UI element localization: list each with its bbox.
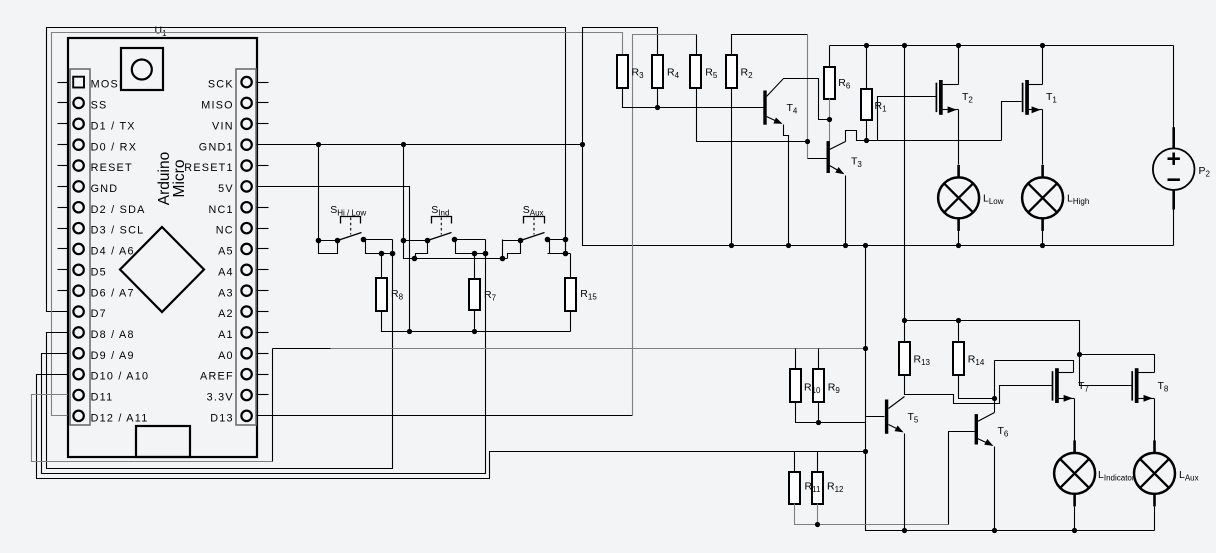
Arduino left pins — [73, 77, 149, 425]
wire T7 drain from T6 collector — [995, 361, 1074, 373]
wire R2 bottom to emitter rail — [731, 89, 733, 246]
wire 5V to resistor rail — [257, 187, 410, 332]
junction T8 drain supply — [1077, 352, 1082, 357]
resistor R4 — [652, 55, 663, 88]
junction T3 base bus — [805, 139, 810, 144]
svg-text:D0 / RX: D0 / RX — [91, 141, 138, 153]
svg-text:D11: D11 — [91, 392, 114, 404]
wire R8 top — [381, 254, 383, 278]
wire R6 top — [829, 46, 831, 67]
svg-text:VIN: VIN — [212, 120, 234, 132]
svg-text:RESET1: RESET1 — [184, 162, 234, 174]
wire T8 drain — [1080, 355, 1155, 373]
label R2 — [741, 67, 754, 81]
resistor R13 — [899, 342, 910, 375]
resistor R3 — [617, 55, 628, 88]
wire D11 gray bus to R9 R10 tops — [32, 349, 866, 462]
resistor R11 — [789, 472, 800, 504]
svg-text:D5: D5 — [91, 266, 107, 278]
junction emitter rail — [729, 243, 1045, 248]
wire T3 base — [808, 158, 827, 160]
wire S_Aux feed vertical — [502, 240, 504, 259]
transistor T3 — [827, 141, 830, 173]
Arduino right pin header — [236, 69, 256, 425]
lamp L_Low — [938, 165, 1004, 231]
lamp L_Aux — [1134, 440, 1199, 506]
wire D10 bus — [37, 375, 866, 479]
wire D12 to R3 (gray) — [52, 33, 623, 416]
resistor R1 — [861, 89, 872, 120]
svg-text:D4 / A6: D4 / A6 — [91, 246, 135, 258]
wire L_Aux bottom — [1154, 507, 1156, 531]
svg-text:A1: A1 — [218, 329, 234, 341]
Arduino Micro text — [156, 152, 188, 205]
label T4 — [787, 102, 798, 116]
wire R14 bottom — [959, 375, 995, 399]
resistor R15 — [565, 278, 576, 311]
resistor R9 — [813, 369, 824, 402]
wire R4 bottom riser — [657, 89, 659, 108]
wire supply drop to R13 — [904, 46, 906, 343]
switch S_Hi/Low — [316, 145, 393, 254]
Arduino pin stubs — [58, 83, 269, 395]
wire R13 bottom and T5 collector to T7 gate — [905, 375, 1053, 404]
wire R3 R4 bottoms to T4 base — [623, 89, 764, 108]
svg-text:D9 / A9: D9 / A9 — [91, 350, 135, 362]
resistor R7 — [469, 279, 480, 310]
wire T6 base — [949, 432, 975, 525]
transistor T7 — [1053, 368, 1090, 440]
junction switch1 outputs — [379, 251, 396, 257]
wire R5 bottom to T3 base bus — [697, 89, 808, 142]
wire GND bus to switch pivots — [404, 241, 508, 259]
junction GND1 rail — [316, 142, 585, 147]
label R4 — [667, 67, 680, 81]
resistor R8 — [376, 278, 387, 311]
wire T4 collector — [767, 79, 830, 120]
svg-text:5V: 5V — [218, 183, 234, 195]
wire R13 R14 supply rail — [905, 321, 1132, 386]
svg-text:A2: A2 — [218, 308, 234, 320]
transistor T5 — [885, 400, 888, 434]
resistor R2 — [726, 55, 737, 88]
svg-text:A0: A0 — [218, 350, 234, 362]
svg-text:D7: D7 — [91, 308, 107, 320]
resistor R12 — [812, 472, 823, 504]
wire R7 bottom — [474, 311, 476, 332]
wire R10 R9 bottoms — [796, 403, 866, 423]
Arduino diamond logo — [120, 227, 204, 312]
wire R11 top — [794, 452, 796, 473]
Arduino ICSP connector — [121, 48, 163, 90]
wire P2 top — [1173, 46, 1175, 149]
wire R2 top to T3 base — [732, 35, 808, 56]
wire T6 emitter — [978, 439, 995, 531]
svg-text:SS: SS — [91, 100, 108, 112]
wire T3 base riser (gray) — [807, 35, 809, 159]
lamp L_Indicator — [1054, 440, 1135, 506]
wire T5 collector — [889, 397, 905, 409]
transistor T4 — [763, 91, 766, 125]
svg-text:RESET: RESET — [91, 162, 133, 174]
wire R12 top — [817, 452, 819, 473]
wire R1 top — [866, 46, 868, 90]
svg-text:D10 / A10: D10 / A10 — [91, 371, 150, 383]
wire P2 bottom — [1172, 190, 1175, 246]
label R7 — [484, 289, 497, 303]
wire L_Low bottom — [958, 231, 960, 246]
wire R15 top — [570, 254, 572, 279]
junction R4 base rail — [655, 105, 660, 110]
wire R7 top — [474, 254, 476, 280]
node GND1-R4 riser — [583, 28, 658, 145]
label T5 — [908, 411, 919, 425]
wire T3 collector — [830, 142, 846, 150]
junction resistor rail — [407, 329, 477, 334]
wire T3 collector bus with hop — [846, 131, 1002, 142]
wire main vertical bus — [866, 246, 1155, 531]
wire top supply rail — [830, 45, 1174, 47]
wire L_High bottom — [1042, 231, 1044, 246]
wire L_Indicator bottom — [1074, 507, 1076, 531]
label R13 — [914, 354, 931, 368]
junction R14 top — [956, 318, 961, 323]
svg-text:D13: D13 — [210, 412, 234, 424]
junction R12 bottom — [815, 522, 820, 527]
svg-text:D12 / A11: D12 / A11 — [91, 412, 149, 424]
wire R10 top — [795, 349, 797, 370]
wire T5 emitter — [889, 425, 905, 531]
wire R14 top — [958, 321, 960, 343]
svg-text:3.3V: 3.3V — [207, 392, 234, 404]
wire T2 gate riser — [878, 97, 936, 141]
Arduino left pin header — [70, 69, 90, 425]
svg-text:A5: A5 — [218, 246, 234, 258]
svg-text:AREF: AREF — [200, 371, 234, 383]
Arduino USB connector — [136, 426, 190, 457]
svg-text:D1 / TX: D1 / TX — [91, 120, 136, 132]
transistor T2 — [936, 46, 973, 165]
junction bottom rail — [902, 528, 1077, 533]
svg-text:A4: A4 — [218, 266, 234, 278]
junction R13 rail — [902, 318, 907, 323]
svg-text:NC: NC — [216, 225, 234, 237]
wire R15 bottom — [570, 312, 572, 332]
junction S_Aux — [500, 237, 569, 262]
junction S_Ind GND — [412, 256, 418, 262]
label R8 — [391, 288, 404, 302]
svg-text:GND1: GND1 — [199, 141, 234, 153]
lamp L_High — [1022, 165, 1089, 231]
switch S_Ind — [401, 145, 486, 259]
label R6 — [838, 77, 851, 91]
label R14 — [968, 354, 985, 368]
junction R6 bottom — [827, 117, 832, 122]
svg-text:D3 / SCL: D3 / SCL — [91, 225, 145, 237]
junction T6 collector R14 — [992, 396, 997, 401]
label R10 — [804, 382, 821, 396]
transistor T1 — [1023, 46, 1058, 165]
transistor T6 — [975, 414, 978, 444]
junction top rail — [864, 43, 1045, 48]
wire D13 riser to R5 (gray) — [633, 35, 697, 416]
label R3 — [632, 67, 645, 81]
wire R1 bottom — [866, 121, 868, 141]
IC U1 Arduino Micro body — [68, 38, 257, 457]
label R11 — [805, 481, 821, 495]
wire R11 R12 bottoms (gray) — [795, 504, 949, 525]
wire T6 collector — [978, 361, 995, 422]
label R12 — [827, 481, 844, 495]
wire T5 base — [866, 416, 885, 418]
svg-text:D8 / A8: D8 / A8 — [91, 329, 135, 341]
svg-text:D2 / SDA: D2 / SDA — [91, 204, 146, 216]
wire GND1 down to bottom rail — [583, 145, 1174, 246]
svg-text:SCK: SCK — [208, 79, 234, 91]
wire R6 bottom (gray) — [829, 99, 831, 142]
junction R1 bottom — [864, 138, 869, 143]
junction main vertical — [863, 346, 868, 454]
label R5 — [705, 67, 718, 81]
label T6 — [998, 425, 1009, 439]
switch S_Aux — [503, 204, 566, 259]
svg-text:MOSI: MOSI — [91, 79, 124, 91]
label U1 — [155, 25, 168, 39]
label T3 — [851, 156, 862, 170]
wire D7 to S_Aux — [47, 28, 566, 312]
junction R9 bottom — [816, 420, 821, 425]
wire T4 emitter — [767, 117, 789, 246]
svg-text:NC1: NC1 — [208, 204, 233, 216]
resistor R6 — [824, 67, 835, 99]
wire D8 to switch S_HiLow output — [47, 254, 393, 469]
svg-text:D6 / A7: D6 / A7 — [91, 287, 135, 299]
resistor R10 — [790, 369, 801, 402]
svg-text:MISO: MISO — [201, 100, 234, 112]
Arduino right pins — [184, 77, 252, 425]
junction switch2 outputs — [472, 251, 489, 257]
resistor R5 — [690, 55, 701, 88]
source P2 — [1153, 148, 1195, 190]
svg-text:GND: GND — [91, 183, 119, 195]
label R1 — [875, 100, 888, 114]
wire R9 top — [818, 349, 820, 370]
wire R8 bottom to rail — [382, 311, 571, 332]
wire D13 bus — [257, 415, 633, 417]
label R15 — [580, 288, 597, 302]
transistor T8 — [1132, 368, 1169, 440]
label P2 — [1199, 165, 1211, 179]
wire T3 emitter — [830, 166, 846, 246]
svg-text:A3: A3 — [218, 287, 234, 299]
label R9 — [828, 382, 841, 396]
wire S_Aux U bottom extension — [548, 240, 571, 254]
resistor R14 — [953, 342, 964, 375]
wire GND1 rail — [257, 144, 583, 146]
wire T1 gate riser — [1002, 102, 1022, 141]
wire D9 to switch S_Ind output — [42, 254, 486, 474]
